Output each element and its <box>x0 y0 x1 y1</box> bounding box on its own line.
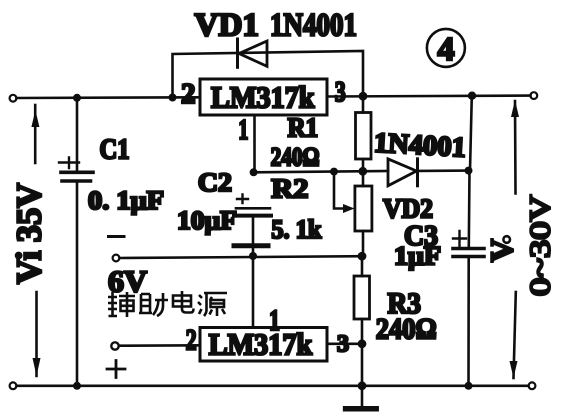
svg-text:240Ω: 240Ω <box>376 313 437 346</box>
wire VD2 cathode to output rail <box>419 169 469 172</box>
terminal aux plus <box>111 342 118 349</box>
svg-text:10μF: 10μF <box>177 205 237 235</box>
svg-text:1: 1 <box>238 115 248 146</box>
node junction C2 bottom <box>249 252 257 260</box>
node junction R2 bottom / R3 top <box>358 252 367 261</box>
node junction R1 bottom / R2 top <box>358 167 367 176</box>
node junction pin1/C2 <box>250 168 258 176</box>
wire output rail vertical <box>470 96 472 171</box>
svg-text:LM317k: LM317k <box>209 327 313 362</box>
capacitor C1 lead bottom <box>76 183 79 386</box>
svg-text:4: 4 <box>438 31 455 68</box>
capacitor C1 lead top <box>76 98 79 171</box>
svg-text:LM317k: LM317k <box>211 80 315 115</box>
label plus sign (aux) <box>107 361 125 378</box>
diode VD1 cathode bar <box>236 39 239 67</box>
terminal aux minus <box>113 255 120 262</box>
svg-text:VD2: VD2 <box>383 194 433 224</box>
value label 6V auxiliary supply chinese text <box>104 291 232 321</box>
terminal output + (top right) <box>530 92 537 99</box>
potentiometer R2 wiper arrow <box>334 172 343 209</box>
char dian (aux label) <box>173 291 194 313</box>
svg-text:Vi 35V: Vi 35V <box>10 183 49 284</box>
svg-text:C2: C2 <box>198 168 232 197</box>
char fu (aux label) <box>108 292 135 317</box>
svg-text:2: 2 <box>186 324 197 357</box>
svg-text:0. 1μF: 0. 1μF <box>88 186 164 215</box>
svg-text:1N4001: 1N4001 <box>373 128 467 164</box>
node junction wiper tap <box>330 168 338 176</box>
svg-text:R1: R1 <box>288 113 319 143</box>
ground <box>361 387 364 407</box>
circled figure number 4 <box>427 29 465 67</box>
node junction output rail top <box>468 92 476 100</box>
svg-text:1N4001: 1N4001 <box>270 8 357 44</box>
node junction C1 bottom <box>73 382 81 390</box>
annotation arrow Vi (left, double-headed) <box>34 105 37 163</box>
node junction VD1 left <box>169 94 177 102</box>
resistor R1 body <box>362 96 365 113</box>
wire bottom rail <box>17 384 529 387</box>
svg-text:C1: C1 <box>100 135 130 166</box>
char zhu (aux label) <box>139 293 168 316</box>
svg-text:240Ω: 240Ω <box>271 143 320 172</box>
wire U2 pin1 down (C2 node to bottom box) <box>252 256 255 328</box>
svg-text:V: V <box>484 239 520 262</box>
wire adjust row (pin1 to VD2) <box>254 171 388 172</box>
diode VD2 triangle <box>388 159 417 186</box>
capacitor C1 plus sign <box>59 158 79 169</box>
capacitor C1 plates <box>61 171 93 175</box>
svg-text:2: 2 <box>181 78 196 110</box>
svg-text:R2: R2 <box>271 174 308 204</box>
wire U2 pin3 to R3 column <box>327 342 362 345</box>
diode VD1 triangle <box>239 41 267 66</box>
node junction output rail bottom <box>465 382 473 390</box>
op-amp U2 regulator LM317k (bottom) box <box>200 328 327 362</box>
svg-text:VD1: VD1 <box>195 8 260 44</box>
resistor R3 body <box>361 256 364 276</box>
char yuan (aux label) <box>198 293 227 316</box>
annotation arrow Vo (right, double-headed) <box>514 101 517 194</box>
wire U1 pin1 down <box>253 115 256 172</box>
node junction VD2 to output rail <box>465 167 473 175</box>
capacitor C3 plates <box>453 247 484 251</box>
wire VD1 bypass loop <box>173 51 364 98</box>
svg-text:5. 1k: 5. 1k <box>271 215 321 244</box>
capacitor C2 plates <box>236 207 270 210</box>
wire aux minus row <box>120 256 363 258</box>
capacitor C2 lead <box>252 218 255 244</box>
potentiometer R2 body <box>362 171 365 186</box>
terminal input - (bottom left) <box>10 382 17 389</box>
diode VD2 cathode bar <box>416 159 419 186</box>
wire top rail right (U1 pin3 to output terminal) <box>327 94 531 98</box>
capacitor C2 bottom bar <box>234 243 268 248</box>
capacitor C3 plus sign <box>453 231 466 247</box>
op-amp U1 regulator LM317k (top) box <box>200 79 327 115</box>
wire aux plus row <box>119 344 200 347</box>
terminal output - (bottom right) <box>529 382 536 389</box>
node junction U1 pin3 <box>359 92 368 101</box>
terminal input + (top left) <box>10 95 17 102</box>
label minus sign (aux) <box>109 235 125 238</box>
node junction ground column <box>358 381 367 390</box>
node junction C1 top <box>73 94 81 102</box>
wire top rail left (Vi+ to U1 pin2) <box>17 96 201 99</box>
node junction U2 pin3 <box>358 339 367 348</box>
svg-text:3: 3 <box>335 76 346 108</box>
svg-text:3: 3 <box>337 332 349 358</box>
capacitor C2 plus sign <box>237 195 248 204</box>
svg-text:1μF: 1μF <box>394 242 441 271</box>
svg-text:0~30V: 0~30V <box>525 195 557 296</box>
